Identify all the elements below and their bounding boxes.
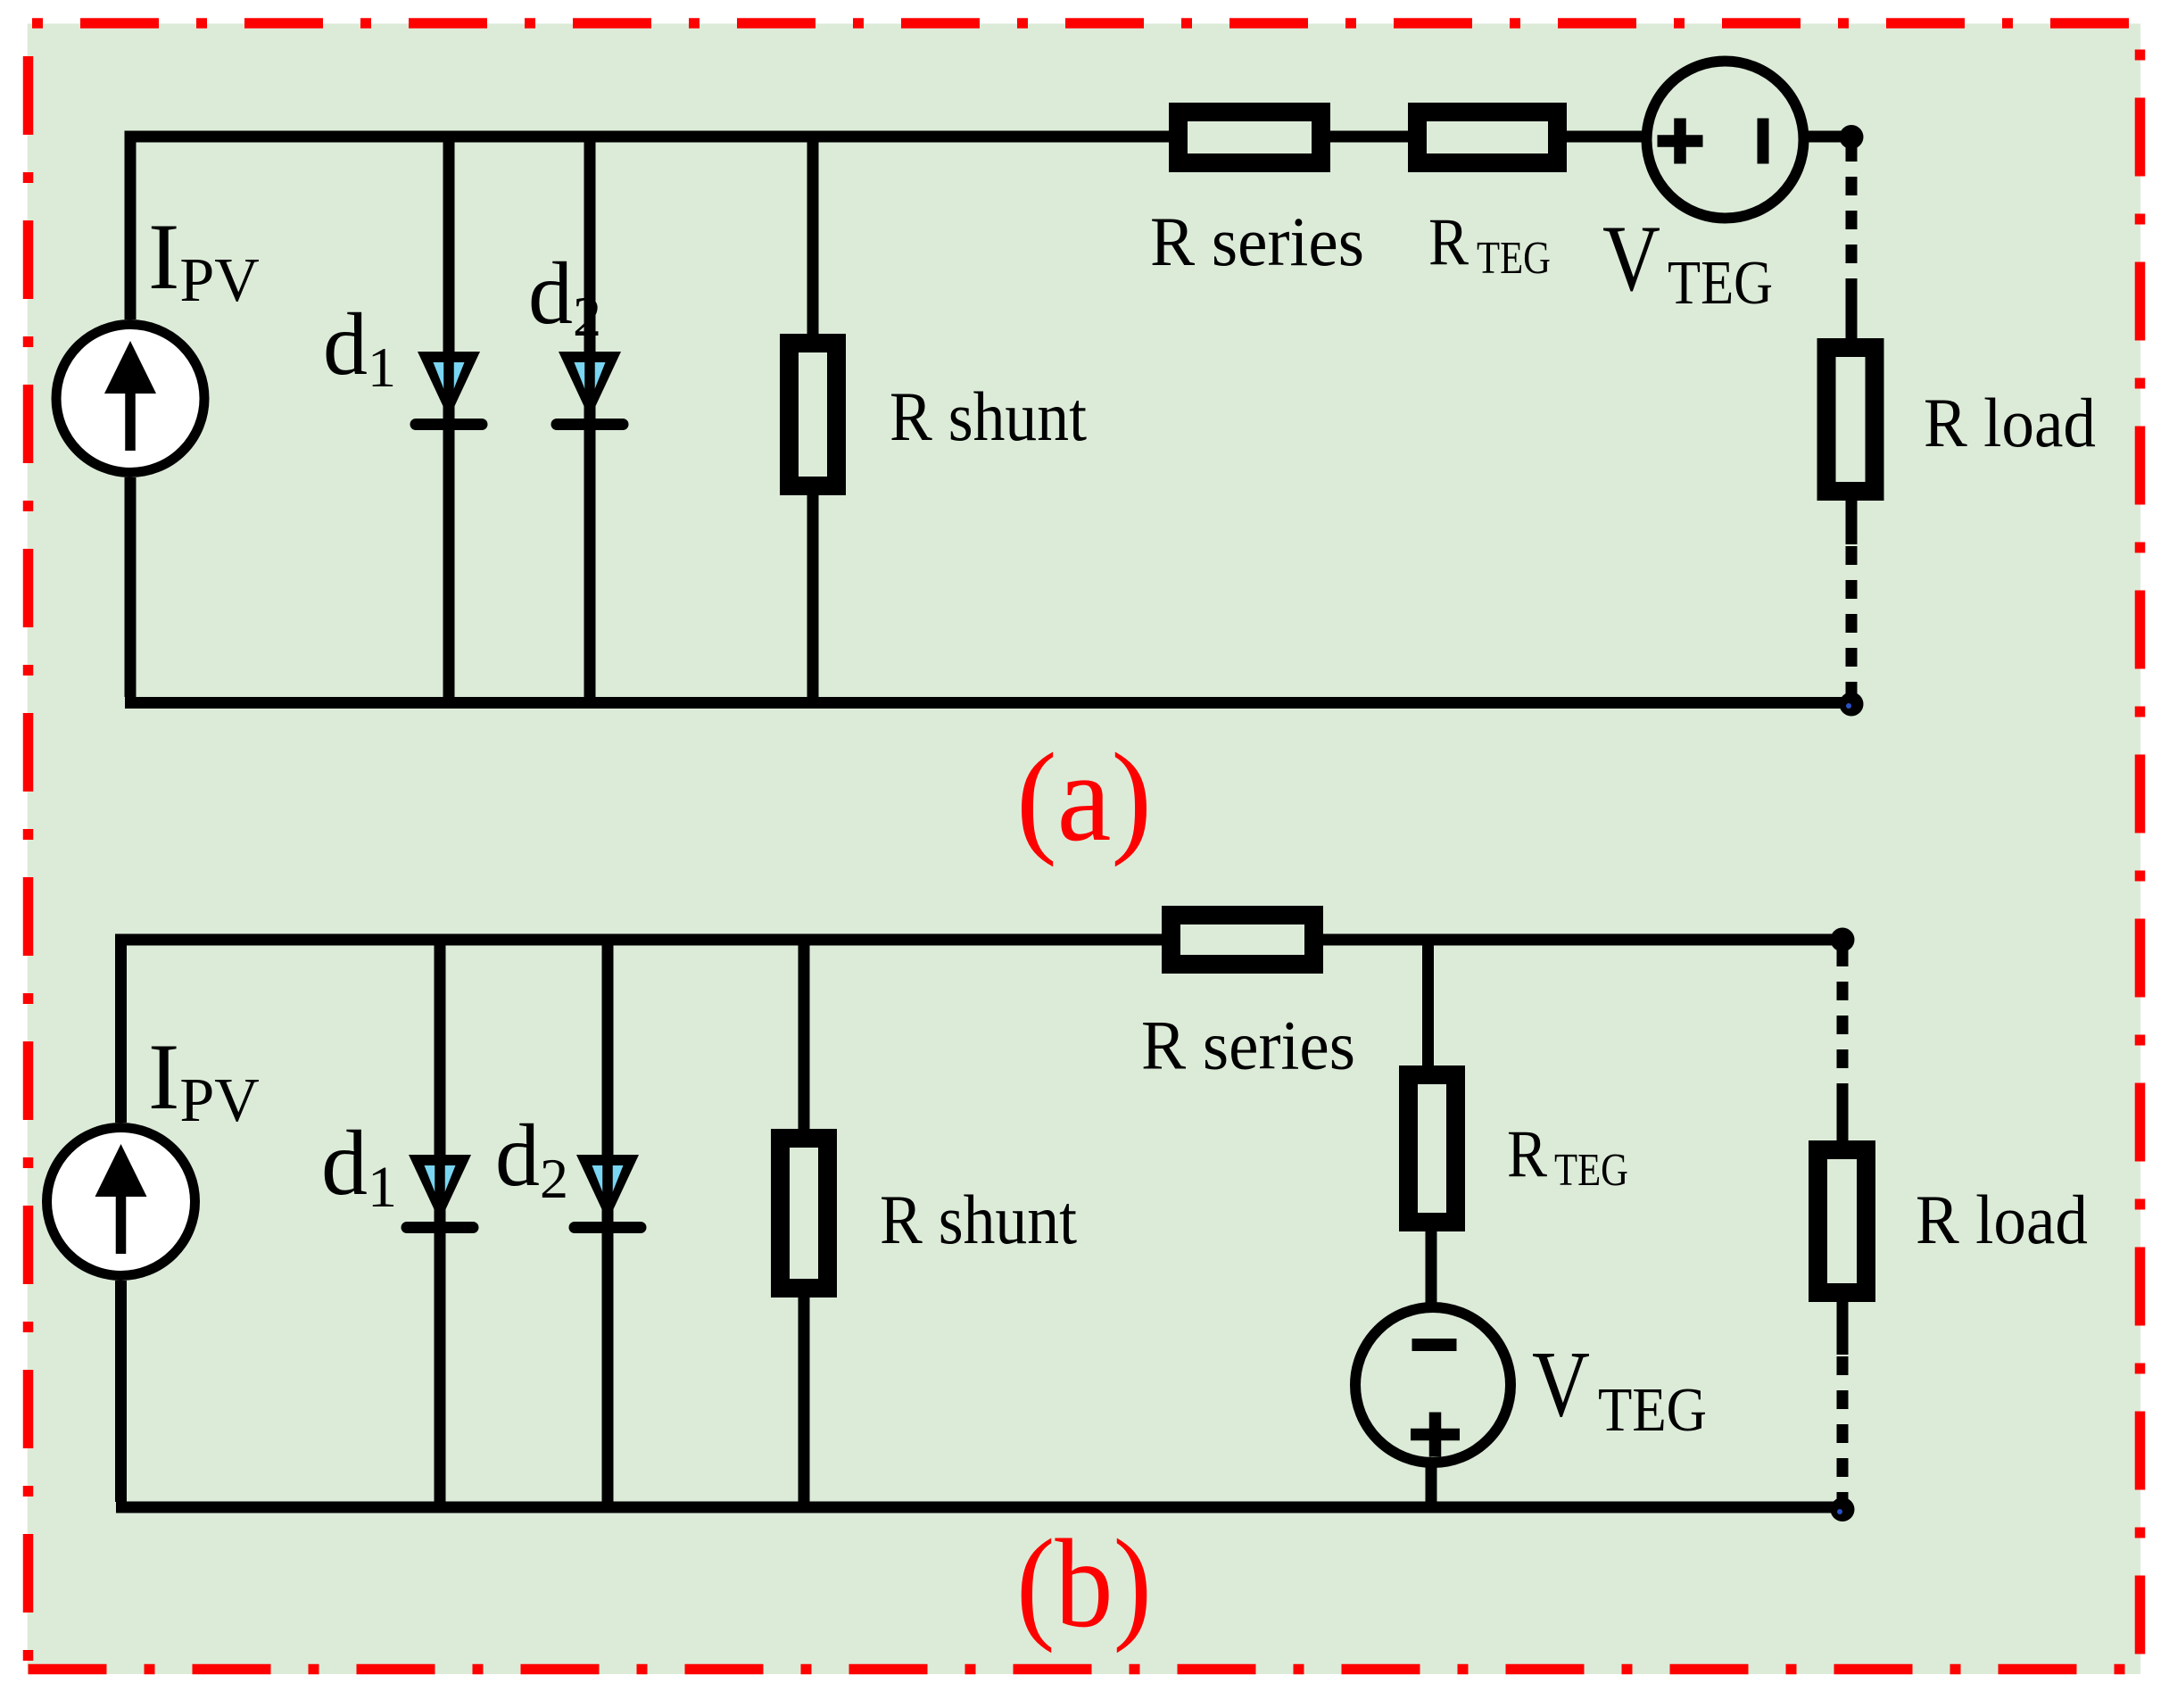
wire: (a) dashed node to R load [1846, 143, 1858, 294]
wire: (a) left vertical below source [125, 477, 137, 697]
wire: (b) R TEG to V TEG [1426, 1231, 1437, 1306]
wire: (a) R shunt branch [807, 137, 819, 703]
svg-text:R load: R load [1924, 384, 2096, 461]
wire: (a) d2 branch [584, 137, 596, 703]
svg-text:R series: R series [1150, 203, 1364, 280]
svg-text:R series: R series [1141, 1007, 1355, 1084]
node top right (b) [1831, 928, 1855, 952]
wire: (a) dashed R load to bottom node [1846, 546, 1858, 698]
svg-text:(a): (a) [1016, 726, 1152, 867]
wire: (a) d1 branch [443, 137, 455, 703]
resistor R series (a) [1179, 112, 1321, 163]
diode d1 (a) [416, 350, 482, 425]
svg-text:TEG: TEG [1668, 249, 1773, 318]
wire: (a) solid above R load [1846, 291, 1858, 339]
svg-text:R shunt: R shunt [890, 377, 1087, 455]
diode d2 (b) [575, 1153, 641, 1228]
red dash-dot frame bottom [29, 1664, 2140, 1675]
svg-text:R load: R load [1916, 1181, 2088, 1258]
wire: (a) bottom rail [125, 697, 1851, 709]
resistor R shunt (a) [790, 344, 837, 486]
resistor R series (b) [1171, 916, 1314, 965]
resistor R TEG (b) [1409, 1075, 1456, 1223]
wire: (b) left vertical below source [115, 1281, 127, 1502]
wire: (a) between R TEG and V TEG [1567, 131, 1644, 143]
svg-text:V: V [1532, 1332, 1590, 1437]
red dash-dot frame left [23, 23, 34, 1670]
wire: (a) left vertical above source and top rail [130, 137, 1169, 319]
resistor R TEG (a) [1418, 112, 1558, 163]
wire: (a) V TEG to node [1806, 131, 1851, 143]
wire: (a) between R series and R TEG [1330, 131, 1408, 143]
red dash-dot frame right [2135, 23, 2146, 1670]
red dash-dot frame top [29, 18, 2140, 29]
wire: (b) V TEG to bottom rail [1426, 1464, 1437, 1507]
resistor R load (a) [1826, 348, 1875, 492]
wire: (b) solid below R load [1837, 1301, 1849, 1355]
resistor R load (b) [1818, 1150, 1867, 1293]
svg-text:R: R [1507, 1117, 1547, 1191]
wire: (b) R shunt branch [799, 940, 810, 1507]
svg-text:(b): (b) [1016, 1513, 1152, 1654]
node bottom right (b) [1831, 1497, 1855, 1521]
diode d2 (a) [557, 350, 623, 425]
svg-text:TEG: TEG [1477, 233, 1551, 284]
node top right (a) [1840, 125, 1864, 149]
svg-text:TEG: TEG [1598, 1376, 1707, 1445]
diode d1 (b) [407, 1153, 473, 1228]
wire: (b) junction down to R TEG [1422, 940, 1434, 1065]
current source I_PV (a) [56, 325, 204, 473]
voltage source V TEG (b) [1355, 1307, 1511, 1463]
wire: (a) solid below R load [1846, 500, 1858, 544]
svg-text:V: V [1602, 206, 1660, 311]
wire: (b) solid above R load [1837, 1099, 1849, 1142]
voltage source V TEG (a) [1647, 62, 1804, 219]
wire: (b) dashed node to R load [1837, 948, 1849, 1102]
node bottom right (a) [1840, 692, 1864, 717]
wire: (b) dashed R load to bottom node [1837, 1356, 1849, 1505]
wire: (b) bottom rail [116, 1502, 1842, 1513]
resistor R shunt (b) [781, 1139, 828, 1289]
wire: (b) R series to node [1323, 934, 1842, 946]
svg-text:R shunt: R shunt [880, 1181, 1077, 1258]
wire: (b) d2 branch [602, 940, 614, 1507]
svg-text:TEG: TEG [1554, 1145, 1628, 1196]
svg-text:R: R [1428, 205, 1469, 279]
wire: (b) d1 branch [435, 940, 446, 1507]
wire: (b) left vertical above source and top rail [121, 940, 1163, 1123]
current source I_PV (b) [47, 1128, 195, 1276]
